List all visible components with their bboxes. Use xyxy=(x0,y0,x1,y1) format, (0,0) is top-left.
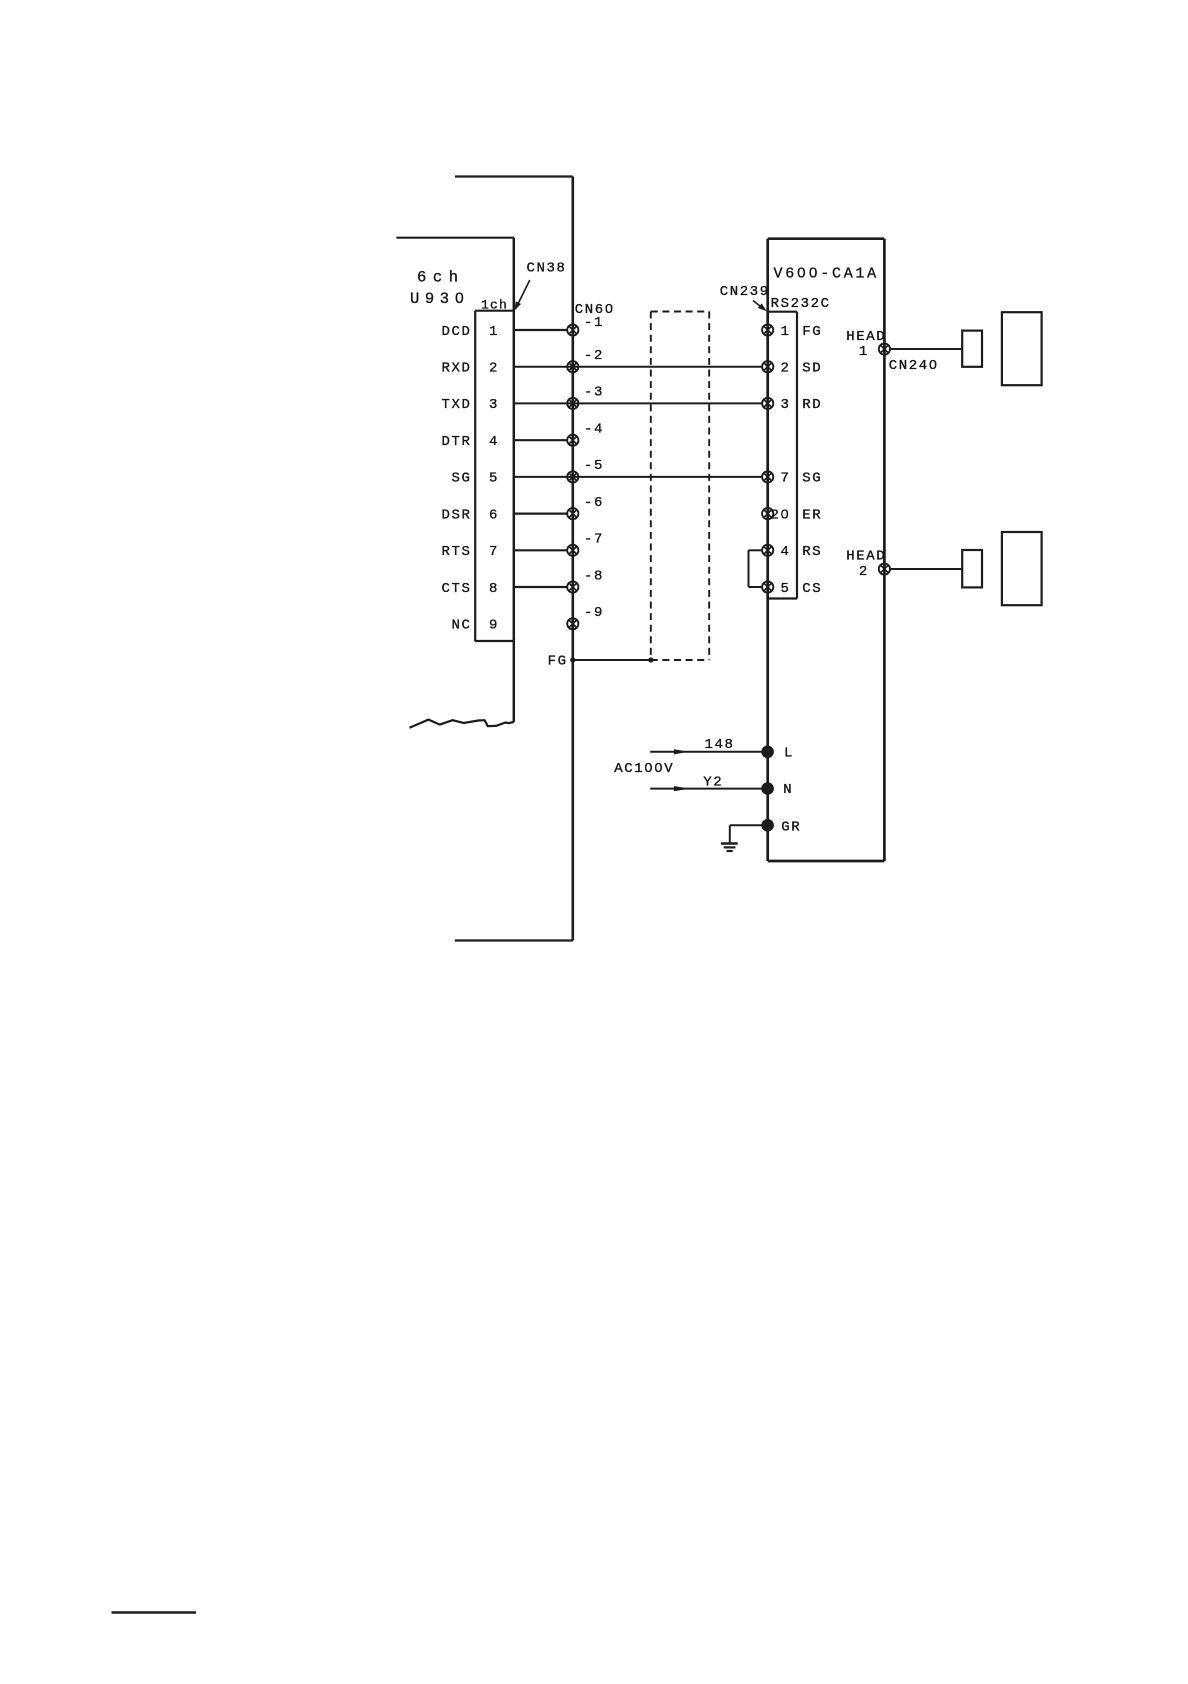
pin 4 DTR of CN38 xyxy=(441,434,499,450)
svg-text:RTS: RTS xyxy=(441,544,471,560)
svg-text:-8: -8 xyxy=(584,568,604,584)
cable shield (dashed screen outline) xyxy=(651,312,709,661)
svg-text:3: 3 xyxy=(780,397,790,413)
svg-text:-2: -2 xyxy=(584,348,604,364)
pin CN60 -1 xyxy=(567,315,604,336)
svg-text:SD: SD xyxy=(802,361,822,377)
ground xyxy=(721,844,738,852)
sensor head 1 box xyxy=(1002,312,1042,385)
sensor head 2 box xyxy=(1002,532,1042,605)
svg-text:2: 2 xyxy=(489,361,499,377)
svg-text:-9: -9 xyxy=(584,605,604,621)
svg-text:1: 1 xyxy=(489,324,499,340)
svg-text:-1: -1 xyxy=(584,315,604,331)
wire CN38 pin 3 through CN60-3 to CN239 xyxy=(514,402,762,404)
label CN239 xyxy=(720,284,770,300)
pin 3 RD of CN239 xyxy=(762,397,822,413)
svg-text:CTS: CTS xyxy=(441,581,471,597)
pin 7 RTS of CN38 xyxy=(441,544,499,560)
svg-text:9: 9 xyxy=(489,618,499,634)
svg-text:GR: GR xyxy=(781,819,801,835)
svg-text:148: 148 xyxy=(705,737,735,753)
pin 1 DCD of CN38 xyxy=(441,324,499,340)
pin HEAD1 on V600-CA1A xyxy=(846,329,890,360)
wire CN38 pin 7 to CN60-7 xyxy=(514,549,567,551)
pin 4 RS of CN239 xyxy=(762,544,822,560)
svg-text:6ch: 6ch xyxy=(417,268,465,286)
wire chassis bracket top (6ch U930 enclosure, torn) xyxy=(455,175,573,177)
label V600-CA1A xyxy=(774,266,879,283)
svg-text:SG: SG xyxy=(802,471,822,487)
svg-text:1: 1 xyxy=(780,324,790,340)
terminal L xyxy=(761,746,794,762)
node U930 label xyxy=(410,290,470,308)
wire cable shield vertical CN60 run xyxy=(571,177,574,941)
svg-text:2: 2 xyxy=(859,564,869,580)
wire CN38 pin 1 to CN60-1 xyxy=(514,329,567,331)
pin 2 RXD of CN38 xyxy=(441,361,499,377)
svg-text:RS232C: RS232C xyxy=(771,296,831,312)
svg-text:CN240: CN240 xyxy=(889,358,939,374)
svg-text:7: 7 xyxy=(780,471,790,487)
wire AC line 148 to terminal L xyxy=(650,737,767,754)
svg-text:N: N xyxy=(783,782,793,798)
svg-text:L: L xyxy=(784,746,794,762)
label RS232C xyxy=(771,296,831,312)
svg-text:HEAD: HEAD xyxy=(846,549,886,565)
pin 20 ER of CN239 xyxy=(762,507,822,523)
wire FG to cable shield dashed box xyxy=(573,657,654,662)
wire 6ch U930 chassis right edge / CN38 connector right side xyxy=(513,238,516,722)
wire GR to ground xyxy=(730,825,768,843)
svg-text:2: 2 xyxy=(780,361,790,377)
svg-text:-6: -6 xyxy=(584,495,604,511)
label CN240 xyxy=(889,358,939,374)
pin 2 SD of CN239 xyxy=(762,361,822,377)
connector CN38 box (1ch port of U930) xyxy=(475,311,514,641)
svg-text:AC100V: AC100V xyxy=(614,761,674,777)
node 6ch label xyxy=(417,268,465,286)
svg-text:6: 6 xyxy=(489,507,499,523)
node 1ch label xyxy=(481,297,508,312)
wire CN38 leader arrow xyxy=(514,280,530,311)
pin 9 NC of CN38 xyxy=(451,618,499,634)
svg-text:4: 4 xyxy=(780,544,790,560)
node FG (cable shield junction) xyxy=(548,654,576,670)
wire CN38 pin 6 to CN60-6 xyxy=(514,512,567,514)
svg-text:NC: NC xyxy=(451,618,471,634)
pin CN60 -6 xyxy=(567,495,604,519)
pin CN60 -2 xyxy=(567,348,604,372)
label CN38 xyxy=(527,261,567,277)
pin CN60 -9 xyxy=(567,605,604,629)
pin CN60 -3 xyxy=(567,385,604,409)
wire footnote rule bottom left xyxy=(112,1611,197,1613)
svg-text:TXD: TXD xyxy=(441,397,471,413)
zero glyph counter patches xyxy=(458,271,935,770)
svg-text:8: 8 xyxy=(489,581,499,597)
svg-text:-5: -5 xyxy=(584,458,604,474)
svg-text:V600-CA1A: V600-CA1A xyxy=(774,266,879,283)
svg-text:CS: CS xyxy=(802,581,822,597)
svg-text:1: 1 xyxy=(859,344,869,360)
svg-text:DSR: DSR xyxy=(441,507,471,523)
label AC100V xyxy=(614,761,674,777)
svg-text:5: 5 xyxy=(780,581,790,597)
label CN60 xyxy=(575,302,615,318)
terminal N xyxy=(761,782,793,798)
svg-text:FG: FG xyxy=(548,654,568,670)
pin 8 CTS of CN38 xyxy=(441,581,499,597)
wire HEAD1 to sensor head 1 xyxy=(890,348,962,350)
wire 6ch U930 chassis top edge (torn) xyxy=(396,237,514,239)
pin 1 FG of CN239 xyxy=(762,324,822,340)
wire CN38 pin 2 through CN60-2 to CN239 xyxy=(514,366,762,368)
svg-text:RS: RS xyxy=(802,544,822,560)
svg-text:4: 4 xyxy=(489,434,499,450)
connector plug head 1 xyxy=(962,331,982,367)
pin 5 SG of CN38 xyxy=(451,471,499,487)
pin CN60 -5 xyxy=(567,458,604,482)
svg-text:Y2: Y2 xyxy=(703,774,723,790)
svg-text:-3: -3 xyxy=(584,385,604,401)
pin 7 SG of CN239 xyxy=(762,471,822,487)
terminal GR xyxy=(761,819,801,835)
svg-text:RXD: RXD xyxy=(441,361,471,377)
svg-text:HEAD: HEAD xyxy=(846,329,886,345)
svg-text:CN38: CN38 xyxy=(527,261,567,277)
pin HEAD2 on V600-CA1A xyxy=(846,549,890,580)
svg-text:SG: SG xyxy=(451,471,471,487)
svg-text:3: 3 xyxy=(489,397,499,413)
svg-text:-4: -4 xyxy=(584,422,604,438)
svg-text:FG: FG xyxy=(802,324,822,340)
wire CN38 pin 8 to CN60-8 xyxy=(514,586,567,588)
svg-text:5: 5 xyxy=(489,471,499,487)
pin 5 CS of CN239 xyxy=(762,581,822,597)
V600-CA1A unit box xyxy=(768,239,885,861)
wire torn edge squiggle at chassis bottom xyxy=(410,720,514,728)
svg-text:-7: -7 xyxy=(584,532,604,548)
wire chassis bracket bottom xyxy=(455,939,573,941)
pin 3 TXD of CN38 xyxy=(441,397,499,413)
pin CN60 -8 xyxy=(567,568,604,592)
wire RS-CS shorting loop xyxy=(749,550,763,587)
pin CN60 -7 xyxy=(567,532,604,556)
pin 6 DSR of CN38 xyxy=(441,507,499,523)
wire AC line Y2 to terminal N xyxy=(650,774,767,791)
wire CN239 leader arrow xyxy=(753,301,767,312)
svg-text:ER: ER xyxy=(802,507,822,523)
svg-text:7: 7 xyxy=(489,544,499,560)
wire HEAD2 to sensor head 2 xyxy=(890,568,962,570)
pin CN60 -4 xyxy=(567,422,604,446)
svg-text:DCD: DCD xyxy=(441,324,471,340)
connector CN239 RS232C box xyxy=(768,312,797,599)
svg-text:20: 20 xyxy=(770,507,790,523)
svg-text:CN239: CN239 xyxy=(720,284,770,300)
connector plug head 2 xyxy=(962,550,982,587)
wire CN38 pin 4 to CN60-4 xyxy=(514,439,567,441)
wire CN38 pin 5 through CN60-5 to CN239 xyxy=(514,476,762,478)
svg-text:RD: RD xyxy=(802,397,822,413)
svg-text:DTR: DTR xyxy=(441,434,471,450)
